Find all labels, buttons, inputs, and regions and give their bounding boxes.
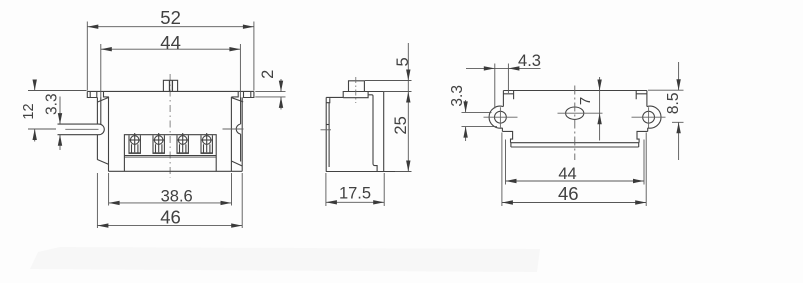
terminal screw 4 — [201, 133, 213, 153]
side view platform — [343, 92, 368, 98]
dim 5 and 25 line — [365, 43, 412, 172]
side view slot center mark — [321, 129, 332, 131]
front view right side slot semicircle — [236, 124, 240, 134]
svg-text:7: 7 — [577, 97, 594, 105]
front view wire lead — [58, 124, 100, 135]
svg-text:12: 12 — [21, 103, 37, 119]
terminal screw 2 — [153, 133, 165, 153]
top view oval crosshair — [558, 112, 603, 114]
front view flange right end tab — [244, 91, 254, 97]
top view left edge upper — [502, 91, 504, 107]
svg-text:44: 44 — [160, 32, 181, 53]
svg-text:3.3: 3.3 — [44, 93, 61, 115]
top view right ear arc — [647, 106, 661, 128]
arrows dim 3.3 front — [58, 113, 62, 124]
top view left edge lower — [501, 128, 503, 131]
svg-text:3.3: 3.3 — [449, 85, 466, 107]
front view right slot wall line — [240, 97, 242, 161]
svg-text:52: 52 — [160, 7, 181, 28]
dim 44 top view lines — [506, 140, 645, 185]
arrows dim 44 front — [101, 47, 112, 51]
dim 3.3 front lines — [59, 97, 61, 151]
arrows dim 12 — [33, 80, 37, 91]
front view left inner wall — [108, 97, 110, 171]
front view left bottom chamfer — [97, 160, 108, 165]
svg-text:4.3: 4.3 — [518, 52, 541, 70]
dim 17.5 lines — [326, 173, 384, 206]
arrow dim 25 upper — [406, 92, 410, 103]
side view body top line — [326, 96, 343, 98]
top view right mounting hole — [643, 111, 655, 123]
front view left neck chamfer — [98, 97, 109, 102]
faint scan smudge — [30, 247, 540, 272]
terminal screw 1 — [129, 133, 141, 153]
top view bottom bar — [511, 143, 640, 147]
side view left tick — [326, 124, 329, 126]
front view left slot wall line — [100, 97, 102, 124]
arrows dim 38.6 — [109, 201, 120, 205]
side view top tab — [349, 81, 365, 92]
front view centerline — [169, 74, 171, 178]
svg-text:8.5: 8.5 — [665, 93, 682, 115]
top view right hole crosshair — [632, 107, 666, 127]
dimension graphics — [28, 22, 286, 229]
side view left inner wall — [328, 103, 330, 167]
dim 4.3 lines — [466, 64, 541, 109]
arrows dim 4.3 — [484, 66, 495, 70]
side view centerline — [355, 77, 357, 103]
svg-text:25: 25 — [392, 116, 410, 134]
svg-text:46: 46 — [558, 183, 579, 204]
front view wire centerline — [65, 128, 98, 130]
front view flange left end tab — [87, 91, 97, 97]
side view left edge — [325, 97, 327, 171]
front view right inner wall — [230, 97, 232, 171]
top view right bottom step — [637, 131, 648, 142]
front view left outer wall — [96, 97, 98, 159]
front view top tab slot — [170, 80, 173, 91]
top view plate top edge — [503, 90, 647, 92]
svg-text:44: 44 — [558, 165, 576, 183]
top view left hole crosshair — [484, 107, 518, 127]
svg-text:5: 5 — [394, 57, 412, 66]
dim 52 lines — [87, 22, 254, 91]
front view top tab — [163, 80, 177, 91]
side view flange top line — [364, 91, 383, 93]
arrows dim 46 front — [97, 223, 108, 227]
dim 8.5 lines — [648, 62, 684, 160]
side view left notch — [326, 98, 330, 103]
dim 46 front lines — [97, 173, 242, 228]
dim 2 lines — [255, 79, 285, 110]
arrows dim 44 top view — [506, 179, 517, 183]
front view bottom edge — [109, 170, 243, 172]
top view left bottom step — [502, 131, 512, 142]
dim 3.3 top view lines — [462, 100, 498, 141]
top view right slot notch — [636, 91, 647, 100]
side view bottom edge — [326, 171, 412, 173]
dim 7 line — [599, 77, 601, 141]
dim 44 front lines — [101, 44, 241, 98]
top view left ear arc — [489, 106, 503, 128]
arrows dim 3.3 top view — [463, 101, 467, 112]
top view oval hole — [566, 107, 584, 119]
arrows dim 7 — [597, 80, 601, 91]
front view flange left inner tab — [104, 91, 109, 97]
svg-text:38.6: 38.6 — [161, 187, 193, 205]
front view right slot center mark — [223, 128, 244, 130]
front view right neck chamfer — [232, 98, 243, 102]
terminal screw 3 — [177, 133, 189, 153]
top view vertical centerline — [574, 86, 576, 161]
svg-text:2: 2 — [259, 70, 277, 79]
front view flange top edge — [87, 90, 254, 92]
svg-text:17.5: 17.5 — [339, 185, 371, 203]
front view right outer wall — [241, 97, 243, 171]
arrow dim 5 upper — [406, 70, 410, 81]
dim 12 lines — [28, 80, 87, 142]
top view right edge lower — [647, 128, 649, 131]
dim 46 top view lines — [502, 133, 646, 207]
top view left mounting hole — [495, 111, 507, 123]
front view right bottom chamfer — [231, 161, 242, 166]
arrow dim 25 lower — [406, 161, 410, 172]
arrows dim 52 — [87, 25, 98, 29]
side view right inner strip — [368, 95, 377, 171]
arrows dim 2 — [279, 81, 283, 92]
top view left slot notch — [503, 91, 513, 100]
front view flange right inner tab — [231, 91, 238, 97]
side view right outer edge — [383, 92, 385, 172]
front view wire tip arc — [99, 124, 104, 135]
top view right edge upper — [646, 91, 648, 107]
dim 38.6 lines — [109, 173, 232, 206]
arrows dim 46 top view — [502, 200, 513, 204]
front view terminal block — [124, 135, 216, 172]
svg-text:46: 46 — [160, 207, 181, 228]
front view terminal block shelf lines — [124, 156, 216, 158]
arrows dim 17.5 — [326, 200, 337, 204]
arrows dim 8.5 — [676, 79, 680, 90]
